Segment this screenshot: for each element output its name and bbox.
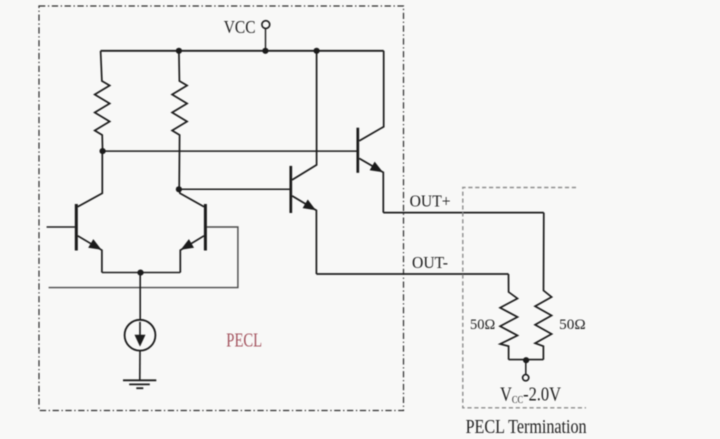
wire emitters to current source [139, 273, 141, 320]
transistor Q4 [358, 51, 386, 213]
resistor RT1 50ohm left [500, 274, 517, 360]
svg-text:OUT-: OUT- [412, 253, 448, 272]
terminal Vcc-2.0V [523, 375, 529, 381]
resistor R2 [172, 51, 187, 190]
svg-text:VCC-2.0V: VCC-2.0V [500, 384, 561, 406]
junction dot rail-R2 [176, 48, 182, 54]
wire node B to Q3 base [179, 188, 290, 190]
junction dot rail-Q3 collector [314, 48, 320, 54]
wire current source to ground [139, 351, 141, 381]
wire emitter junction [102, 272, 180, 274]
junction dot rail-VCC [262, 48, 268, 54]
junction dot node A [100, 148, 106, 154]
transistor Q3 [291, 51, 319, 274]
svg-text:PECL: PECL [226, 329, 262, 351]
resistor R1 [95, 51, 110, 151]
junction dot node B [176, 186, 182, 192]
wire Q2 base return [49, 227, 238, 288]
svg-text:OUT+: OUT+ [410, 192, 451, 211]
VCC terminal [262, 21, 270, 29]
wire VCC rail [101, 50, 384, 52]
ground [123, 380, 156, 388]
svg-text:50Ω: 50Ω [559, 317, 586, 333]
svg-text:50Ω: 50Ω [470, 317, 495, 333]
resistor RT2 50ohm right [535, 213, 552, 360]
transistor Q2 [178, 189, 205, 272]
wire OUT- [316, 273, 508, 275]
wire resistor bottoms join [509, 359, 544, 361]
svg-text:PECL Termination: PECL Termination [466, 416, 587, 438]
wire node A to Q4 base [103, 150, 357, 152]
PECL termination dashed box [463, 188, 586, 408]
PECL block dashed box [39, 6, 404, 411]
wire to Vcc-2.0V terminal [525, 360, 527, 374]
junction dot termination [523, 357, 529, 363]
wire OUT+ [383, 212, 544, 214]
wire VCC terminal to rail [265, 29, 267, 51]
junction dot emitters [137, 270, 143, 276]
transistor Q1 [76, 151, 104, 272]
wire Q1 base input [47, 226, 75, 228]
current source I1 [125, 320, 156, 351]
svg-text:VCC: VCC [224, 17, 256, 37]
